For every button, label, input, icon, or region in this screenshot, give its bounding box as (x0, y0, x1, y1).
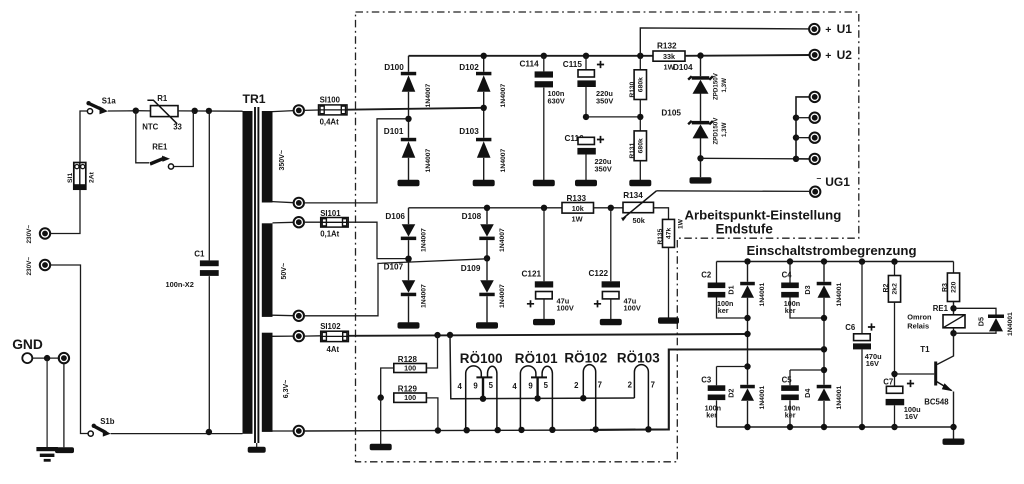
wire C3 to bottom rail (716, 400, 718, 427)
diode D3 (817, 282, 832, 298)
junction R2/C7/base (891, 371, 897, 377)
svg-text:R132: R132 (657, 42, 677, 51)
wire 50V top stub (273, 221, 294, 224)
svg-text:D4: D4 (803, 389, 812, 398)
capacitor C5 (781, 385, 799, 400)
svg-text:D100: D100 (384, 63, 404, 72)
junction Roe100 pin9 (480, 396, 486, 402)
resistor R135 (663, 219, 675, 247)
junction C3/D2 (744, 363, 750, 369)
svg-text:2k2: 2k2 (892, 283, 899, 295)
svg-text:UG1: UG1 (825, 175, 850, 189)
svg-text:RÖ100: RÖ100 (460, 351, 503, 366)
wire mains L to fuse SI1 (51, 190, 81, 234)
diode D2 (740, 385, 755, 401)
wire C122 to ground (610, 299, 612, 319)
svg-text:1N4001: 1N4001 (1007, 312, 1014, 336)
diode D109 (479, 280, 494, 296)
capacitor C7 (electrolytic) (886, 380, 915, 405)
svg-text:16V: 16V (866, 359, 879, 368)
wire C5 to bottom rail (789, 400, 791, 427)
svg-text:C115: C115 (563, 60, 583, 69)
junction center tap (378, 394, 384, 400)
transformer TR1 secondary winding 350V (262, 111, 273, 203)
wire 6.3V bottom stub (273, 430, 294, 432)
board outline (dashed) (356, 12, 859, 462)
zener diode D105 (688, 121, 713, 138)
junction heater AC2 in (821, 346, 827, 352)
svg-text:47k: 47k (666, 228, 673, 240)
terminal 50V bottom (294, 311, 304, 321)
junction heater AC1 in (744, 331, 750, 337)
svg-text:50k: 50k (633, 216, 646, 225)
svg-text:33: 33 (173, 122, 182, 131)
svg-text:R1: R1 (157, 94, 168, 103)
svg-text:1W: 1W (572, 215, 583, 224)
svg-text:ker: ker (706, 411, 717, 420)
wire junction to C122 (610, 208, 612, 281)
terminal mains N (40, 260, 50, 270)
svg-text:C121: C121 (522, 270, 542, 279)
wire node C to capacitor C1 (208, 111, 210, 261)
junction relay/D5 bottom (950, 330, 956, 336)
wire to fuse SI102 (304, 335, 321, 337)
junction C2/D1 (744, 315, 750, 321)
wire center tap to ground (380, 398, 382, 444)
svg-text:1W: 1W (678, 218, 685, 229)
resistor R130 (634, 70, 646, 100)
svg-text:1N4001: 1N4001 (759, 385, 766, 409)
svg-text:C7: C7 (883, 377, 893, 386)
wire R128 to heater feed (426, 335, 437, 368)
capacitor C122 (electrolytic) (594, 281, 620, 307)
wire node E to earth (46, 358, 48, 447)
svg-text:4: 4 (458, 382, 463, 391)
svg-text:ker: ker (718, 306, 729, 315)
wire D100 to D101 (408, 92, 410, 138)
terminal tap 4 (810, 154, 820, 164)
wire tap 2 stub (796, 117, 810, 119)
wire emitter to ground (953, 392, 955, 439)
svg-text:U1: U1 (837, 22, 853, 36)
svg-text:D104: D104 (673, 63, 693, 72)
junction rail D102 (481, 53, 487, 59)
wire collector (937, 333, 954, 364)
junction zener tap (697, 155, 703, 161)
diode D108 (479, 224, 494, 240)
transistor T1 (936, 362, 953, 392)
diode D101 (401, 138, 416, 158)
terminal 6.3V bottom (294, 426, 304, 436)
wire tap 4 stub (796, 158, 810, 160)
svg-text:R130: R130 (629, 81, 636, 97)
svg-text:C1: C1 (194, 250, 205, 259)
terminal tap 3 (810, 133, 820, 143)
svg-text:1N4007: 1N4007 (425, 83, 432, 107)
svg-text:33k: 33k (663, 52, 675, 61)
svg-text:1N4007: 1N4007 (500, 83, 507, 107)
wire D103 to ground (483, 158, 485, 180)
junction bus pin5 RO100 (495, 427, 501, 433)
wire rail to D3 (823, 262, 825, 282)
junction C122 (608, 205, 614, 211)
ground bar D101 (398, 180, 420, 186)
wire C115 to midpoint node (585, 87, 587, 117)
wire R134 to R135 (654, 208, 669, 220)
svg-text:7: 7 (598, 380, 602, 389)
svg-text:D106: D106 (385, 212, 405, 221)
wire D5 anode return (954, 331, 997, 333)
svg-text:ZPD150V: ZPD150V (713, 72, 720, 100)
wire tap 3 stub (796, 137, 810, 139)
wire rail to C2 (716, 262, 718, 283)
junction rail R130/U1 (637, 53, 643, 59)
wire HV positive rail (409, 55, 654, 57)
svg-text:RÖ103: RÖ103 (617, 351, 660, 366)
diode D103 (476, 138, 491, 158)
svg-text:4: 4 (512, 382, 517, 391)
wire RE1 contact to node B (174, 111, 194, 167)
wire heater mid rail (450, 335, 634, 399)
svg-text:1N4007: 1N4007 (500, 148, 507, 172)
svg-text:SI1: SI1 (67, 173, 74, 183)
svg-text:230V~: 230V~ (26, 225, 33, 244)
junction Roe101 pin9 (534, 395, 540, 401)
junction bus pin4 RO100 (464, 427, 470, 433)
node B junction (192, 108, 198, 114)
wire C2 to D1 anode (717, 298, 748, 319)
core ground bar (248, 447, 266, 453)
svg-text:ZPD150V: ZPD150V (713, 117, 720, 145)
svg-text:C3: C3 (701, 375, 712, 384)
wire fuse SI1 to switch S1a (80, 111, 87, 162)
terminal mains L (40, 228, 50, 238)
svg-text:D107: D107 (384, 263, 404, 272)
tube heater RO103 (634, 365, 648, 430)
capacitor C6 (electrolytic) (853, 323, 875, 349)
capacitor C1 (200, 260, 219, 276)
svg-text:D109: D109 (461, 264, 481, 273)
svg-text:350V~: 350V~ (279, 150, 286, 170)
svg-text:1N4007: 1N4007 (499, 228, 506, 252)
svg-text:C114: C114 (520, 60, 540, 69)
svg-text:350V: 350V (596, 97, 613, 106)
svg-text:D103: D103 (459, 127, 479, 136)
capacitor C2 (708, 283, 726, 298)
svg-text:RÖ101: RÖ101 (515, 351, 558, 366)
relay contact RE1 (150, 156, 174, 169)
svg-text:0,1At: 0,1At (320, 229, 339, 238)
svg-text:5: 5 (489, 381, 494, 390)
svg-text:1,3W: 1,3W (721, 122, 728, 137)
svg-text:SI101: SI101 (320, 209, 341, 218)
wire rail to C114 (543, 56, 545, 72)
transformer TR1 core (255, 107, 258, 443)
wire D106 to D107 (408, 240, 410, 280)
svg-text:9: 9 (473, 381, 478, 390)
svg-text:2: 2 (574, 381, 579, 390)
svg-text:R131: R131 (629, 142, 636, 158)
junction R130/R131 (637, 114, 643, 120)
wire to fuse SI101 (304, 221, 321, 223)
wire 6.3V top stub (273, 335, 294, 337)
wire R130 to R131 (639, 100, 641, 131)
wire C6 to bottom rail (861, 349, 863, 427)
svg-text:Endstufe: Endstufe (716, 222, 773, 237)
svg-text:Arbeitspunkt-Einstellung: Arbeitspunkt-Einstellung (685, 207, 842, 222)
ground bar C121 (533, 319, 555, 325)
capacitor C4 (781, 283, 799, 298)
capacitor C3 (708, 385, 726, 400)
junction rail D108 (484, 205, 490, 211)
svg-text:1N4001: 1N4001 (836, 282, 843, 306)
wire D109 to ground (486, 296, 488, 322)
fuse SI102 (321, 331, 349, 341)
svg-text:+: + (825, 50, 831, 62)
wire rail to D100 (408, 56, 410, 72)
wire R2 to C7/base node (894, 302, 896, 386)
label -UG1 (817, 173, 851, 189)
svg-text:1,3W: 1,3W (721, 78, 728, 93)
junction rail R2 (891, 258, 897, 264)
wire heater bus riser AC2 (590, 349, 824, 430)
svg-text:TR1: TR1 (243, 92, 266, 106)
wire terminal group spine (796, 97, 810, 159)
svg-text:RÖ102: RÖ102 (564, 351, 607, 366)
wire SI102 heater feed AC1 (348, 334, 747, 336)
capacitor C115 (electrolytic) (577, 61, 604, 87)
svg-text:C4: C4 (782, 270, 793, 279)
capacitor C114 (535, 71, 553, 87)
svg-text:10k: 10k (572, 204, 584, 213)
trimmer R134 (621, 191, 657, 221)
junction rail C121 (541, 205, 547, 211)
svg-text:630V: 630V (548, 97, 565, 106)
svg-text:2: 2 (628, 380, 633, 389)
junction bias AC2 (484, 255, 490, 261)
svg-text:D1: D1 (727, 285, 736, 294)
resistor R2 (888, 276, 900, 303)
svg-text:220: 220 (951, 281, 958, 293)
svg-text:C6: C6 (845, 323, 856, 332)
switch S1b (88, 424, 111, 437)
svg-text:5: 5 (544, 381, 549, 390)
svg-text:U2: U2 (837, 48, 853, 62)
svg-text:1N4007: 1N4007 (425, 148, 432, 172)
svg-text:R135: R135 (657, 228, 664, 244)
terminal tap 2 (810, 113, 820, 123)
svg-text:D102: D102 (459, 63, 479, 72)
switch S1a (86, 101, 107, 114)
zener diode D104 (688, 76, 713, 94)
svg-text:100V: 100V (624, 304, 641, 313)
svg-text:6,3V~: 6,3V~ (283, 380, 290, 399)
junction AC1-HV (481, 105, 487, 111)
svg-text:BC548: BC548 (924, 397, 949, 406)
wire D104 to D105 (700, 93, 702, 121)
junction rail D3 (821, 258, 827, 264)
svg-text:D101: D101 (384, 127, 404, 136)
svg-text:1N4001: 1N4001 (836, 385, 843, 409)
terminal tap 1 (810, 92, 820, 102)
wire relay coil out (953, 328, 955, 333)
diode D107 (401, 280, 416, 296)
svg-text:100: 100 (404, 363, 416, 372)
svg-text:RE1: RE1 (933, 304, 949, 313)
wire rail to R3 (953, 262, 955, 274)
terminal +U2 (810, 50, 820, 60)
wire base feed (895, 373, 935, 375)
ground bar R131 (629, 180, 651, 186)
wire bias negative rail (409, 207, 563, 209)
diode D100 (401, 72, 416, 92)
svg-text:Relais: Relais (907, 322, 929, 331)
wire rail to C4 (789, 262, 791, 283)
svg-text:1N4001: 1N4001 (759, 282, 766, 306)
wire 350V bottom stub (273, 202, 294, 203)
svg-text:SI102: SI102 (320, 322, 341, 331)
wire +U1 rail (640, 28, 809, 56)
wire down to C3 (716, 367, 718, 386)
wire C4 to D3 anode (790, 298, 824, 319)
svg-text:C5: C5 (782, 375, 793, 384)
svg-text:R133: R133 (567, 194, 587, 203)
wire R135 to ground (668, 247, 670, 317)
junction tap 3 (793, 134, 799, 140)
terminal GND (open) (22, 353, 32, 363)
wire SI100 to rectifier node AC1-HV (347, 108, 484, 110)
junction rail C6 (859, 258, 865, 264)
wire 6.3V bottom heater bus (304, 430, 669, 432)
junction rail C4 (787, 258, 793, 264)
junction bottom D4 (821, 424, 827, 430)
svg-text:R129: R129 (398, 384, 418, 393)
capacitor C116 (electrolytic) (577, 136, 604, 155)
ground bar center tap (370, 444, 392, 450)
wire D1 to D2 (747, 298, 749, 385)
wire rail to C121 (543, 208, 545, 281)
wire 50V bottom stub (273, 314, 294, 317)
junction bottom rail emitter (950, 424, 956, 430)
svg-text:Omron: Omron (907, 312, 932, 321)
junction rail C114 (541, 53, 547, 59)
wire D105 to ground (700, 138, 702, 177)
svg-text:D108: D108 (462, 212, 482, 221)
svg-text:0,4At: 0,4At (320, 117, 339, 126)
wire chassis terminal down (63, 363, 65, 447)
junction bus pin5 RO101 (549, 427, 555, 433)
svg-text:T1: T1 (920, 345, 930, 354)
junction bus R129 (435, 427, 441, 433)
transformer TR1 secondary winding 6.3V (262, 333, 273, 432)
wire C7 to bottom rail (894, 405, 896, 427)
wire rail to R2 (894, 262, 896, 276)
ground bar C116 (575, 180, 597, 186)
wire D4 to bottom rail (823, 401, 825, 427)
svg-text:680k: 680k (638, 77, 645, 92)
wire S1b to transformer primary bottom (111, 433, 243, 435)
resistor R131 (634, 131, 646, 161)
capacitor C121 (electrolytic) (527, 281, 553, 307)
wire mains N to switch S1b (51, 265, 88, 434)
wire R133 to R134 (594, 207, 624, 209)
junction U2/D104 (697, 52, 703, 58)
diode D4 (817, 385, 832, 401)
terminal 350V top (294, 105, 304, 115)
ground bar R135 (658, 317, 679, 323)
wire C3 top link (717, 366, 748, 368)
wire D107 to ground (408, 296, 410, 322)
svg-text:1N4007: 1N4007 (421, 284, 428, 308)
svg-text:R3: R3 (942, 283, 949, 292)
ground bar D109 (476, 322, 498, 328)
wire D2 to bottom rail (747, 401, 749, 427)
wire node A to R1 (136, 110, 151, 112)
svg-text:16V: 16V (905, 412, 918, 421)
junction HV midpoint (583, 114, 589, 120)
wire R131 to ground (639, 161, 641, 180)
ground bar T1 (943, 439, 965, 445)
wire GND to chassis terminal (32, 357, 60, 359)
wire C1 to neutral return (208, 276, 210, 432)
junction bottom D2 (744, 424, 750, 430)
junction bias AC1 (405, 256, 411, 262)
node E junction (44, 355, 50, 361)
ground bar C114 (533, 180, 555, 186)
wire D102 to D103 (483, 92, 485, 138)
ground bar D107 (398, 322, 420, 328)
svg-text:NTC: NTC (142, 122, 158, 131)
svg-text:R128: R128 (398, 355, 418, 364)
junction rail D1 (744, 258, 750, 264)
resistor R128 (394, 363, 427, 372)
wire rail to D1 (747, 262, 749, 282)
junction bottom C6 (859, 424, 865, 430)
svg-text:7: 7 (651, 380, 655, 389)
resistor R129 (394, 393, 427, 402)
node D junction (C1 return) (206, 429, 212, 435)
chassis ground bar (55, 447, 74, 453)
svg-text:C2: C2 (701, 270, 712, 279)
junction heater center (447, 332, 453, 338)
junction bottom rail C7 (891, 424, 897, 430)
junction bus pin4 RO101 (518, 427, 524, 433)
resistor R132 (653, 51, 685, 61)
wire 350V bottom to rectifier node AC2-HV (304, 119, 409, 203)
wire R129 to heater bus (426, 398, 438, 431)
wire 50V return to bias AC2 (304, 259, 487, 316)
wire midpoint to R130/R131 (586, 116, 640, 118)
svg-text:D5: D5 (977, 317, 986, 326)
wire core to ground (256, 443, 258, 447)
junction tap 2 (793, 115, 799, 121)
svg-text:230V~: 230V~ (26, 257, 33, 276)
wire D101 to ground (408, 158, 410, 180)
junction AC2-HV (405, 116, 411, 122)
svg-text:SI100: SI100 (320, 95, 341, 104)
wire rail to C115 (585, 56, 587, 70)
wire D3 to D4 (823, 298, 825, 385)
transformer TR1 secondary winding 50V (262, 223, 273, 317)
wire to D5 cathode (954, 308, 997, 314)
ground bar C122 (600, 319, 622, 325)
svg-text:680k: 680k (638, 138, 645, 153)
wire rail to R130 (639, 56, 641, 70)
tube heater RO101 (520, 366, 552, 430)
wire C116 to ground (585, 155, 587, 181)
wire C114 to ground (543, 88, 545, 180)
wire 350V top stub (273, 111, 294, 112)
